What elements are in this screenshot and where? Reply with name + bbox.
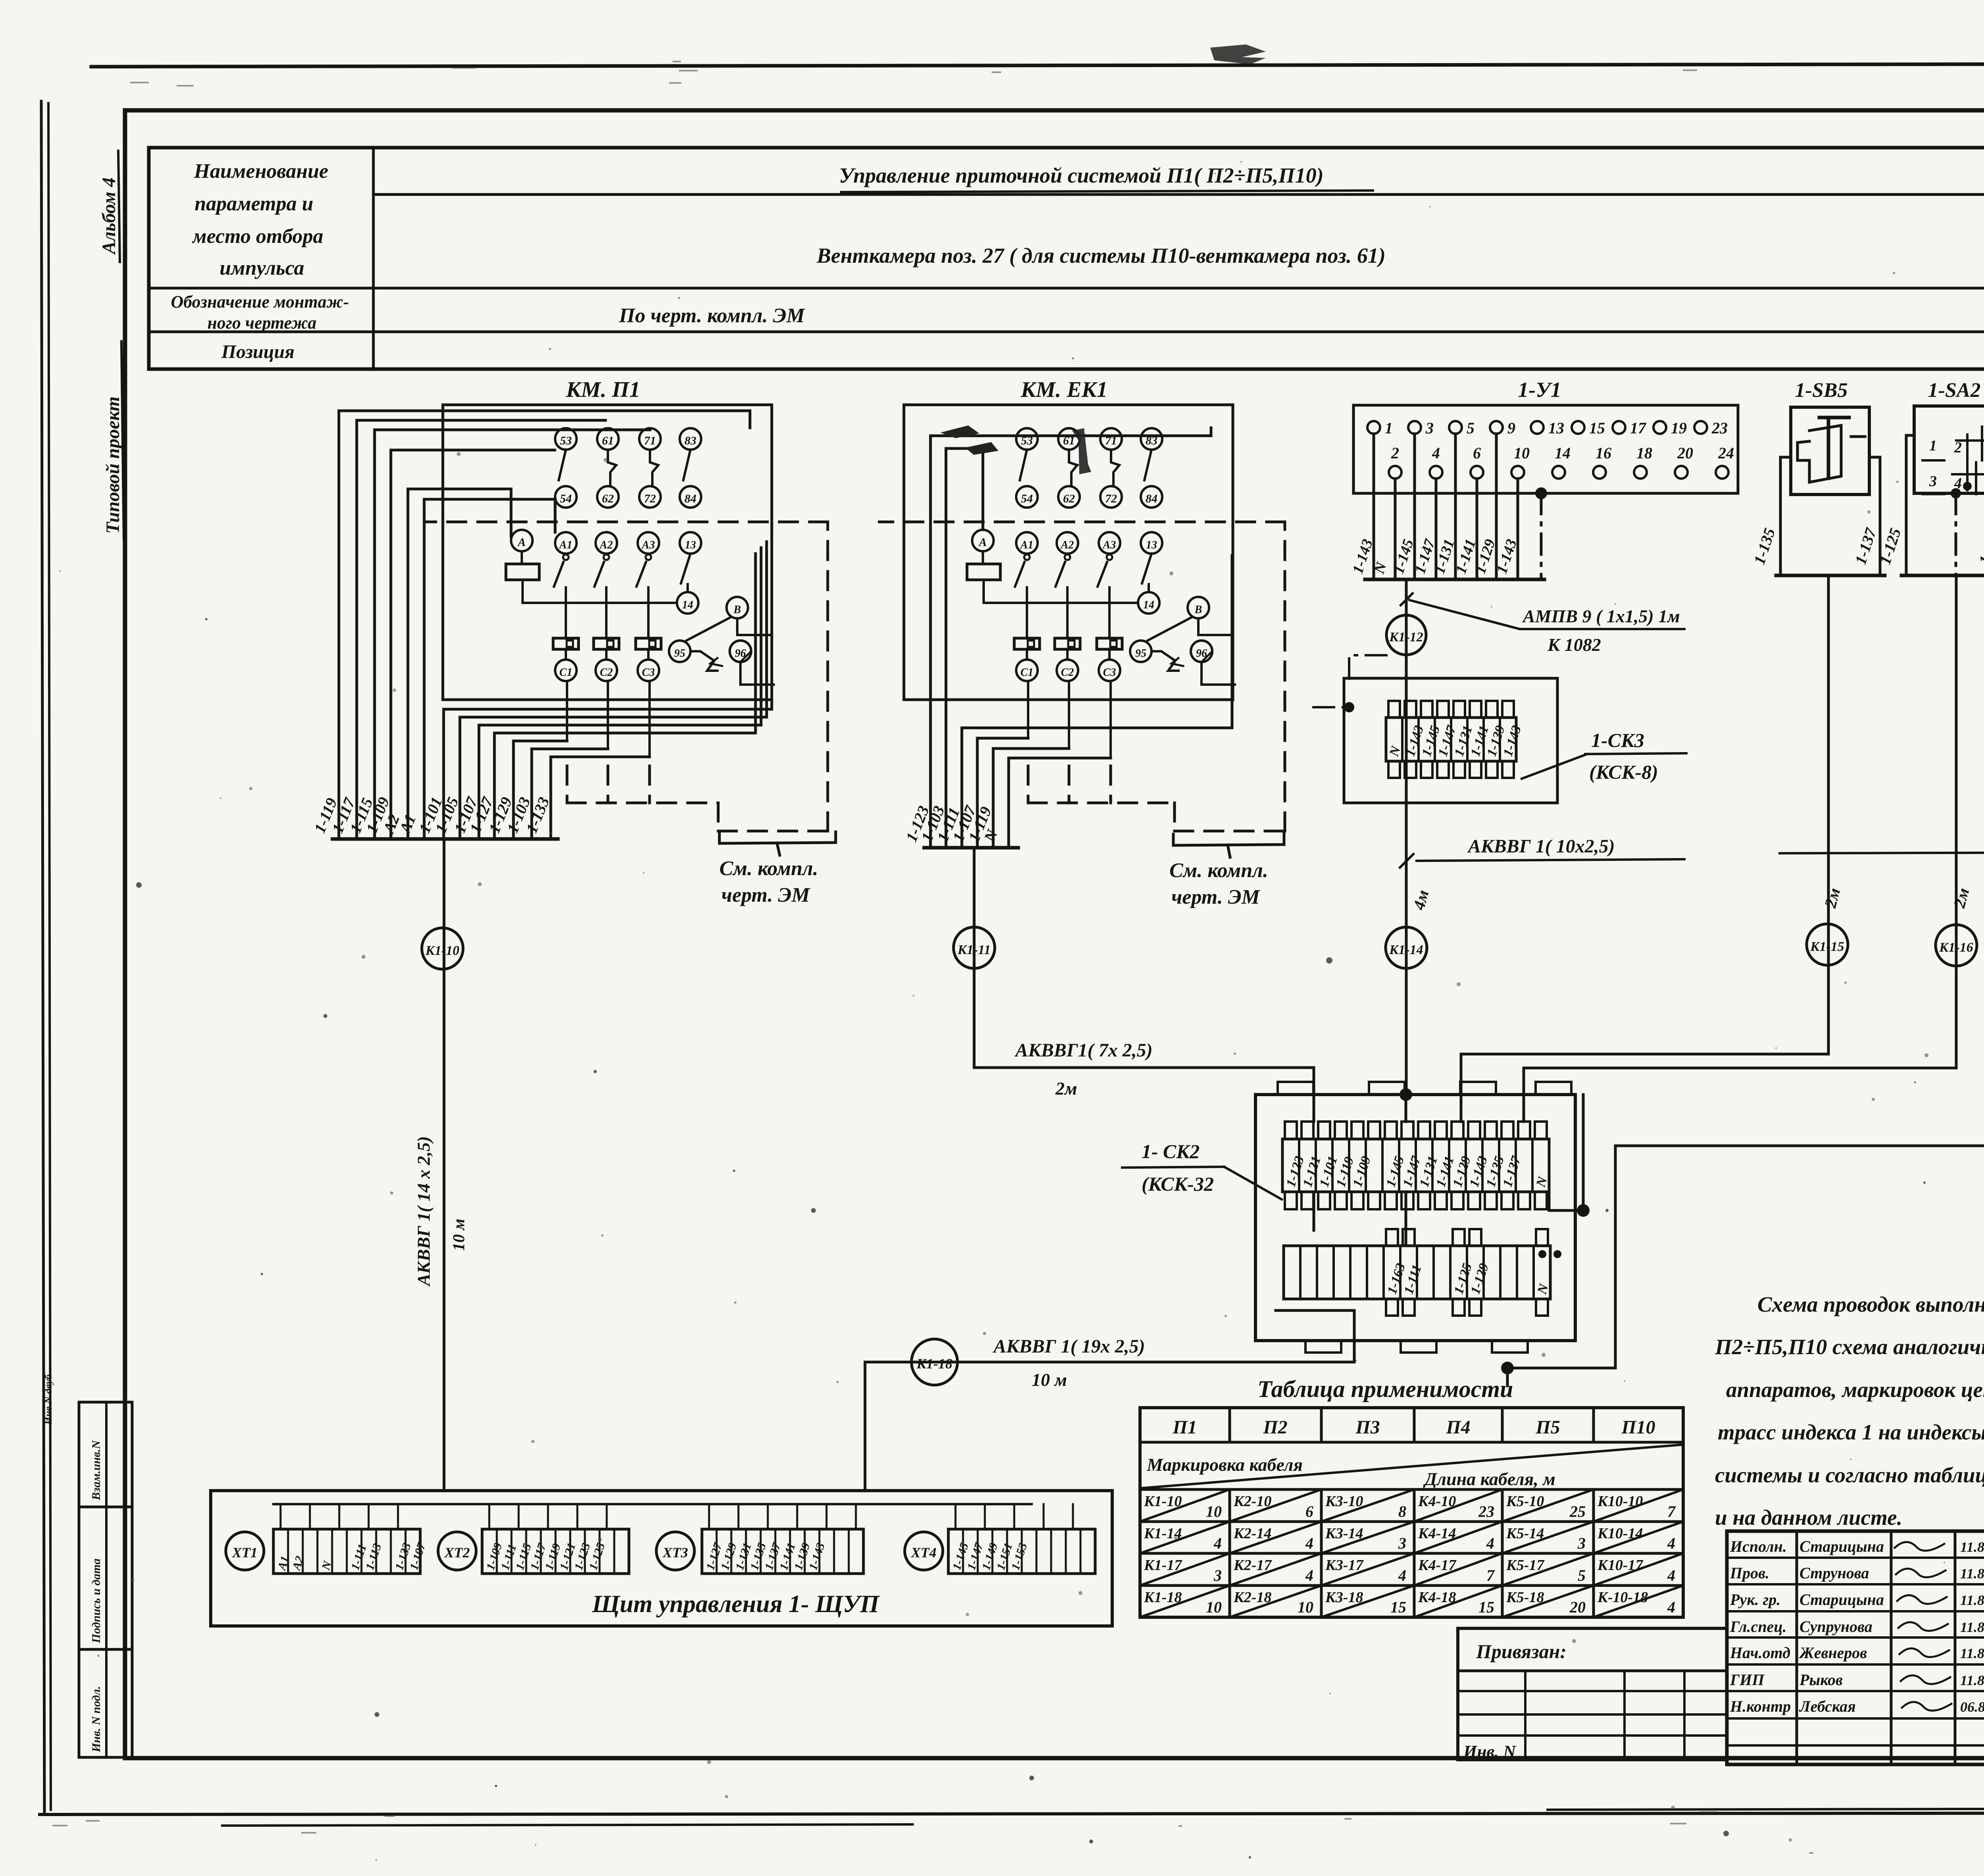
bundle wire top 5 КМ. П1 bbox=[423, 499, 426, 839]
data rows bbox=[1140, 1520, 1683, 1523]
dashed lines from C1 C2 C3 KM.P1 bbox=[566, 766, 569, 803]
redraw terminal 96 KM.P1 bbox=[730, 641, 751, 662]
cable AKVVG1 4x2.5 bbox=[1780, 852, 1984, 853]
svg-text:62: 62 bbox=[602, 492, 614, 505]
svg-text:1-СК3: 1-СК3 bbox=[1591, 729, 1644, 751]
svg-text:К5-18: К5-18 bbox=[1506, 1589, 1544, 1606]
svg-text:11.85: 11.85 bbox=[1960, 1645, 1984, 1661]
contact terminal 71 КМ. П1 bbox=[639, 428, 661, 450]
signature rows bbox=[1727, 1557, 1984, 1559]
contact terminal 62 КМ. П1 bbox=[597, 486, 619, 508]
cell К5-17 bbox=[1502, 1553, 1594, 1585]
svg-text:С1: С1 bbox=[1021, 666, 1034, 679]
terminal А1 КМ. П1 bbox=[555, 532, 577, 554]
pin 3 1-U1 bbox=[1408, 421, 1421, 434]
terminal А2 КМ. П1 bbox=[596, 532, 617, 554]
svg-text:системы и согласно таблиц: системы и согласно таблиц применимости (… bbox=[1715, 1463, 1984, 1487]
header row line 3 bbox=[149, 331, 1984, 333]
svg-text:Взам.инв.N: Взам.инв.N bbox=[90, 1440, 103, 1501]
bundle wire top 0 КМ. П1 bbox=[338, 411, 340, 839]
svg-text:КМ. П1: КМ. П1 bbox=[565, 377, 640, 402]
svg-text:5: 5 bbox=[1578, 1566, 1586, 1584]
svg-text:Схема проводок выполнена д: Схема проводок выполнена для системы П1.… bbox=[1757, 1292, 1984, 1316]
terminal B КМ. П1 bbox=[727, 597, 748, 618]
svg-text:10: 10 bbox=[1298, 1598, 1313, 1616]
svg-text:К1-11: К1-11 bbox=[957, 943, 991, 957]
cell К3-10 bbox=[1321, 1489, 1414, 1522]
cell К10-14 bbox=[1594, 1522, 1683, 1553]
terminal А2 КМ. ЕК1 bbox=[1057, 532, 1078, 554]
1-CK3 label bbox=[1522, 754, 1587, 779]
svg-text:20: 20 bbox=[1677, 444, 1693, 462]
scan artifacts top bbox=[1210, 44, 1266, 64]
svg-text:П1: П1 bbox=[1172, 1417, 1197, 1438]
svg-text:С3: С3 bbox=[1103, 666, 1116, 679]
sheet outer edge top line bbox=[91, 63, 1984, 67]
cell К2-17 bbox=[1230, 1553, 1321, 1585]
svg-text:ХТ2: ХТ2 bbox=[444, 1545, 470, 1560]
svg-text:4: 4 bbox=[1667, 1534, 1675, 1552]
svg-text:4: 4 bbox=[1305, 1566, 1313, 1584]
terminal А3 КМ. ЕК1 bbox=[1099, 532, 1120, 554]
svg-text:11.85: 11.85 bbox=[1960, 1619, 1984, 1635]
svg-text:72: 72 bbox=[644, 492, 656, 505]
contact terminal 53 КМ. ЕК1 bbox=[1016, 428, 1038, 450]
svg-text:3: 3 bbox=[1398, 1534, 1406, 1552]
1-CK3 dash-dot top left bbox=[1349, 655, 1386, 679]
svg-text:К4-18: К4-18 bbox=[1418, 1589, 1456, 1606]
terminal 95 КМ. ЕК1 bbox=[1130, 641, 1152, 662]
svg-text:14: 14 bbox=[1555, 444, 1571, 462]
svg-text:По черт. компл. ЭМ: По черт. компл. ЭМ bbox=[619, 304, 806, 327]
svg-text:(КСК-32: (КСК-32 bbox=[1142, 1173, 1214, 1195]
svg-text:95: 95 bbox=[674, 647, 685, 660]
1-CK2 bottom tabs bbox=[1305, 1341, 1341, 1353]
coil КМ. П1 bbox=[521, 551, 523, 564]
pin 16 1-U1 bbox=[1593, 466, 1606, 479]
svg-text:АМПВ 9 ( 1х1,5) 1м: АМПВ 9 ( 1х1,5) 1м bbox=[1522, 606, 1680, 626]
svg-text:1- СК2: 1- СК2 bbox=[1142, 1140, 1200, 1162]
terminals C1 C2 C3 КМ. ЕК1 bbox=[1016, 660, 1038, 681]
riser wire from KM.P1 to panel bbox=[443, 839, 446, 1491]
svg-text:7: 7 bbox=[1667, 1503, 1676, 1520]
junction circle K1-12 bbox=[1405, 579, 1408, 1095]
pin 4 1-U1 bbox=[1430, 466, 1442, 479]
riser wire from KM.EK1 bbox=[973, 848, 976, 1068]
header table column divider bbox=[372, 148, 375, 369]
svg-text:К5-10: К5-10 bbox=[1506, 1493, 1544, 1510]
svg-text:К2-18: К2-18 bbox=[1233, 1589, 1271, 1606]
1-U1 junction dot bbox=[1535, 487, 1547, 499]
bracket KM.P1 bbox=[719, 832, 836, 843]
cell К5-18 bbox=[1502, 1585, 1594, 1617]
pole contact at 1528 КМ. ЕК1 bbox=[1065, 554, 1070, 560]
svg-text:3: 3 bbox=[1213, 1566, 1222, 1584]
pin 20 1-U1 bbox=[1675, 466, 1688, 479]
panel terminal group ХТ2 bbox=[482, 1529, 629, 1574]
route K1-11 to CK2 bbox=[974, 1068, 1314, 1095]
contact terminal 54 КМ. ЕК1 bbox=[1016, 486, 1038, 508]
svg-text:Супрунова: Супрунова bbox=[1799, 1618, 1872, 1635]
svg-text:А3: А3 bbox=[641, 539, 655, 551]
bundle bus КМ. ЕК1 bbox=[924, 846, 1018, 850]
svg-text:Венткамера поз. 27 ( для с: Венткамера поз. 27 ( для системы П10-вен… bbox=[816, 244, 1386, 267]
terminal 95 КМ. П1 bbox=[669, 641, 690, 662]
svg-text:Лебская: Лебская bbox=[1799, 1697, 1856, 1715]
pole contact at 1528 КМ. П1 bbox=[604, 554, 609, 560]
svg-text:Управление приточной систе: Управление приточной системой П1( П2÷П5,… bbox=[839, 164, 1323, 187]
svg-text:параметра и: параметра и bbox=[194, 192, 313, 215]
svg-text:53: 53 bbox=[560, 434, 572, 447]
dashed box right side KM.P1 bbox=[827, 522, 829, 831]
cell К4-14 bbox=[1414, 1522, 1502, 1553]
svg-text:К1-18: К1-18 bbox=[1144, 1589, 1182, 1606]
contactor box КМ. П1 bbox=[443, 405, 772, 700]
panel internal bus bbox=[273, 1503, 1032, 1505]
svg-text:В: В bbox=[733, 604, 741, 616]
contact terminal 53 КМ. П1 bbox=[555, 428, 577, 450]
svg-text:К5-14: К5-14 bbox=[1506, 1525, 1544, 1542]
svg-text:черт. ЭМ: черт. ЭМ bbox=[1171, 886, 1261, 908]
cell К2-18 bbox=[1230, 1585, 1321, 1617]
svg-text:Рыков: Рыков bbox=[1799, 1671, 1843, 1689]
cell К3-14 bbox=[1321, 1522, 1414, 1553]
svg-text:К3-10: К3-10 bbox=[1325, 1493, 1363, 1510]
svg-text:1: 1 bbox=[1929, 437, 1937, 454]
svg-text:9: 9 bbox=[1507, 419, 1515, 437]
pin 10 1-U1 bbox=[1511, 466, 1524, 479]
cell К1-18 bbox=[1140, 1585, 1230, 1617]
1-CK3 outer box bbox=[1344, 678, 1557, 803]
bundle wire bot 6 КМ. П1 bbox=[550, 757, 552, 839]
svg-text:ХТ3: ХТ3 bbox=[662, 1545, 688, 1560]
contact terminal 72 КМ. ЕК1 bbox=[1100, 486, 1122, 508]
svg-text:КМ. ЕК1: КМ. ЕК1 bbox=[1020, 377, 1107, 402]
svg-text:10: 10 bbox=[1206, 1503, 1222, 1520]
contact terminal 84 КМ. ЕК1 bbox=[1141, 486, 1162, 508]
svg-text:Наименование: Наименование bbox=[194, 160, 329, 183]
svg-text:Гл.спец.: Гл.спец. bbox=[1730, 1618, 1787, 1635]
terminal А1 КМ. ЕК1 bbox=[1016, 532, 1038, 554]
svg-text:(КСК-8): (КСК-8) bbox=[1589, 761, 1658, 783]
bundle wire top 3 КМ. П1 bbox=[390, 450, 392, 839]
bundle wire bot 2 КМ. П1 bbox=[478, 725, 481, 839]
sheet outer edge left double line bbox=[41, 101, 44, 1813]
privyazan block bbox=[1458, 1628, 1727, 1760]
svg-text:А3: А3 bbox=[1102, 539, 1116, 551]
pin 9 1-U1 bbox=[1490, 421, 1503, 434]
terminal 13 КМ. ЕК1 bbox=[1141, 532, 1162, 554]
1-U1 dash-dot drop bbox=[1540, 493, 1543, 579]
svg-text:А2: А2 bbox=[599, 539, 613, 551]
1-CK2 bottom bus to K1-18 bbox=[1353, 1310, 1356, 1362]
1-CK2 top junction dot bbox=[1400, 1088, 1412, 1101]
svg-text:К1-12: К1-12 bbox=[1389, 630, 1423, 645]
svg-text:П2: П2 bbox=[1263, 1417, 1287, 1438]
pin 5 1-U1 bbox=[1449, 421, 1462, 434]
svg-text:1-У1: 1-У1 bbox=[1518, 378, 1561, 402]
contact terminal 62 КМ. ЕК1 bbox=[1058, 486, 1080, 508]
svg-text:15: 15 bbox=[1390, 1598, 1406, 1616]
terminal box 1-U1 bbox=[1353, 405, 1738, 493]
pin 6 1-U1 bbox=[1471, 466, 1483, 479]
contact terminal 83 КМ. П1 bbox=[680, 428, 701, 450]
coil terminal A КМ. П1 bbox=[511, 530, 533, 551]
bundle wire top 2 КМ. П1 bbox=[373, 430, 376, 839]
redraw terminal 96 KM.EK1 bbox=[1191, 641, 1212, 662]
svg-text:К10-10: К10-10 bbox=[1597, 1493, 1643, 1510]
cell К4-10 bbox=[1414, 1489, 1502, 1522]
bundle wire bot 2 КМ. ЕК1 bbox=[992, 748, 995, 848]
terminal 96 КМ. П1 bbox=[730, 641, 751, 662]
svg-text:2м: 2м bbox=[1055, 1078, 1077, 1099]
panel circle ХТ3 bbox=[656, 1532, 694, 1570]
junction circle K1-14 bbox=[1386, 927, 1427, 968]
svg-text:23: 23 bbox=[1478, 1503, 1494, 1520]
header row P1..P10 bbox=[1140, 1441, 1683, 1444]
title block outer bbox=[1727, 1531, 1984, 1764]
svg-text:См. компл.: См. компл. bbox=[719, 857, 818, 880]
svg-text:10 м: 10 м bbox=[1032, 1370, 1067, 1390]
wire B down КМ. ЕК1 bbox=[1198, 618, 1232, 635]
cable AKVVG1 19x2.5 from K1-18 bbox=[865, 1361, 1354, 1364]
bundle wire top 0 КМ. ЕК1 bbox=[929, 436, 932, 848]
svg-text:ХТ1: ХТ1 bbox=[232, 1545, 258, 1560]
svg-text:К1-18: К1-18 bbox=[916, 1356, 952, 1372]
terminal 14 КМ. П1 bbox=[677, 592, 698, 614]
svg-text:4: 4 bbox=[1486, 1534, 1494, 1552]
bracket KM.EK1 bbox=[1173, 833, 1284, 845]
svg-text:С1: С1 bbox=[559, 666, 573, 679]
svg-text:С3: С3 bbox=[642, 666, 655, 679]
svg-text:62: 62 bbox=[1063, 492, 1075, 505]
svg-text:Обозначение монтаж-: Обозначение монтаж- bbox=[171, 292, 349, 312]
svg-text:К2-17: К2-17 bbox=[1233, 1557, 1272, 1574]
cable AKVVG1 10x2.5 bbox=[1400, 854, 1413, 868]
cell К1-14 bbox=[1140, 1522, 1230, 1553]
svg-text:95: 95 bbox=[1135, 647, 1146, 660]
svg-text:4: 4 bbox=[1667, 1566, 1675, 1584]
contactor box КМ. ЕК1 bbox=[904, 405, 1233, 700]
svg-text:71: 71 bbox=[644, 434, 656, 447]
switch 1-SA2 outer box bbox=[1906, 435, 1984, 575]
svg-text:1-SB5: 1-SB5 bbox=[1795, 379, 1848, 402]
svg-text:84: 84 bbox=[1146, 492, 1157, 505]
svg-text:Старицына: Старицына bbox=[1799, 1591, 1884, 1609]
terminal strip at 3232,2870 bbox=[1282, 1139, 1549, 1192]
route K1-15 to CK2 bbox=[1827, 575, 1830, 1054]
svg-text:А: А bbox=[978, 536, 987, 549]
C1-C3 solid stubs KM.P1 bbox=[566, 681, 568, 741]
svg-text:8: 8 bbox=[1398, 1503, 1406, 1520]
cell К10-10 bbox=[1594, 1489, 1683, 1522]
svg-text:1: 1 bbox=[1385, 419, 1393, 437]
svg-text:К1-15: К1-15 bbox=[1810, 939, 1844, 954]
bundle wire top 1 КМ. ЕК1 bbox=[945, 448, 948, 848]
svg-text:10: 10 bbox=[1514, 444, 1530, 462]
contact terminal 72 КМ. П1 bbox=[639, 486, 661, 508]
svg-text:П2÷П5,П10 схема аналогична с: П2÷П5,П10 схема аналогична с за меной в … bbox=[1715, 1335, 1984, 1359]
bundle wire top 4 КМ. П1 bbox=[407, 489, 409, 839]
svg-text:Щит управления 1- ЩУП: Щит управления 1- ЩУП bbox=[592, 1591, 880, 1618]
svg-text:6: 6 bbox=[1473, 444, 1481, 462]
control panel box bbox=[211, 1491, 1112, 1626]
1-U1 bus bbox=[1365, 578, 1544, 581]
switch 1-SA2 inner box bbox=[1914, 406, 1984, 493]
svg-text:3: 3 bbox=[1425, 419, 1434, 437]
svg-text:11.85: 11.85 bbox=[1960, 1592, 1984, 1608]
svg-text:К4-14: К4-14 bbox=[1418, 1525, 1456, 1542]
pin 1 1-U1 bbox=[1367, 421, 1380, 434]
terminal 14 КМ. ЕК1 bbox=[1138, 592, 1159, 614]
svg-text:61: 61 bbox=[602, 434, 614, 447]
terminal А3 КМ. П1 bbox=[638, 532, 659, 554]
header table outer box bbox=[149, 148, 1984, 369]
aux contacts КМ. П1 bbox=[559, 450, 566, 480]
svg-text:96: 96 bbox=[1196, 647, 1207, 660]
bundle wire top 1 КМ. П1 bbox=[356, 420, 358, 839]
svg-text:Инв. N: Инв. N bbox=[1463, 1742, 1517, 1761]
svg-text:Маркировка кабеля: Маркировка кабеля bbox=[1146, 1455, 1303, 1475]
svg-text:4: 4 bbox=[1398, 1566, 1406, 1584]
svg-text:Рук. гр.: Рук. гр. bbox=[1730, 1591, 1780, 1609]
svg-text:54: 54 bbox=[1021, 492, 1033, 505]
svg-text:16: 16 bbox=[1596, 444, 1611, 462]
junction circle K1-10 bbox=[422, 928, 463, 969]
contact terminal 84 КМ. П1 bbox=[680, 486, 701, 508]
pin 13 1-U1 bbox=[1531, 421, 1544, 434]
svg-text:Позиция: Позиция bbox=[221, 341, 294, 362]
svg-text:К4-17: К4-17 bbox=[1418, 1557, 1457, 1574]
svg-text:17: 17 bbox=[1630, 419, 1647, 437]
heaters КМ. ЕК1 bbox=[1014, 638, 1040, 649]
coil КМ. ЕК1 bbox=[982, 551, 984, 564]
thermal contact КМ. П1 bbox=[690, 651, 717, 671]
heaters КМ. П1 bbox=[553, 638, 579, 649]
svg-text:АКВВГ1( 7х 2,5): АКВВГ1( 7х 2,5) bbox=[1014, 1040, 1153, 1061]
svg-text:С2: С2 bbox=[1061, 666, 1074, 679]
svg-text:К5-17: К5-17 bbox=[1506, 1557, 1545, 1574]
svg-text:1-SA2: 1-SA2 bbox=[1928, 379, 1981, 402]
svg-text:3: 3 bbox=[1929, 473, 1937, 490]
svg-text:Инв. N подл.: Инв. N подл. bbox=[90, 1686, 103, 1753]
svg-text:К1-16: К1-16 bbox=[1939, 940, 1973, 955]
svg-text:Исполн.: Исполн. bbox=[1730, 1537, 1787, 1555]
panel terminal group ХТ1 bbox=[273, 1529, 420, 1574]
top bundle horizontals KM.EK1 bbox=[930, 435, 1211, 437]
svg-text:14: 14 bbox=[1143, 599, 1154, 611]
svg-text:83: 83 bbox=[684, 434, 696, 447]
bundle wire bot 0 КМ. ЕК1 bbox=[961, 728, 963, 848]
aux contacts КМ. ЕК1 bbox=[1020, 450, 1027, 480]
bundle wire bot 3 КМ. ЕК1 bbox=[1007, 758, 1010, 848]
junction circle K1-11 bbox=[954, 927, 995, 968]
pin 2 1-U1 bbox=[1389, 466, 1401, 479]
svg-text:и на данном листе.: и на данном листе. bbox=[1715, 1505, 1902, 1530]
contact terminal 83 КМ. ЕК1 bbox=[1141, 428, 1162, 450]
dashed lines from C1 C2 C3 KM.EK1 bbox=[1027, 766, 1030, 803]
svg-text:Инв.N двуб: Инв.N двуб bbox=[42, 1374, 54, 1425]
svg-text:84: 84 bbox=[684, 492, 696, 505]
terminal strip at 3493,1808 bbox=[1386, 718, 1516, 761]
cell К10-17 bbox=[1594, 1553, 1683, 1585]
svg-text:15: 15 bbox=[1478, 1598, 1494, 1616]
bundle wire bot 1 КМ. ЕК1 bbox=[976, 738, 979, 848]
1-CK2 top tabs bbox=[1278, 1082, 1313, 1095]
svg-text:96: 96 bbox=[735, 647, 746, 660]
cell К-10-18 bbox=[1594, 1585, 1683, 1617]
svg-text:13: 13 bbox=[1146, 539, 1157, 551]
svg-text:13: 13 bbox=[1548, 419, 1564, 437]
header row line 2 bbox=[149, 287, 1984, 290]
svg-text:Пров.: Пров. bbox=[1730, 1564, 1769, 1582]
pole contact at 1634 КМ. ЕК1 bbox=[1107, 554, 1112, 560]
svg-text:ГИП: ГИП bbox=[1730, 1671, 1765, 1689]
route K1-16 to CK2 bbox=[1955, 575, 1958, 1068]
panel circle ХТ1 bbox=[226, 1532, 264, 1570]
contact 13-14 КМ. П1 bbox=[681, 554, 690, 583]
bundle wire bot 4 КМ. П1 bbox=[512, 741, 515, 839]
1-SB5 bottom bus bbox=[1776, 574, 1885, 577]
svg-text:10 м: 10 м bbox=[450, 1219, 468, 1251]
svg-text:Старицына: Старицына bbox=[1799, 1537, 1884, 1555]
svg-text:Типовой проект: Типовой проект bbox=[102, 396, 123, 534]
wire 14 to coil КМ. ЕК1 bbox=[984, 602, 1138, 604]
svg-text:6: 6 bbox=[1305, 1503, 1313, 1520]
svg-text:АКВВГ 1( 14 х 2,5): АКВВГ 1( 14 х 2,5) bbox=[413, 1136, 434, 1287]
svg-text:Н.контр: Н.контр bbox=[1730, 1697, 1791, 1715]
wire B down КМ. П1 bbox=[737, 618, 771, 635]
svg-text:Подпись и дата: Подпись и дата bbox=[90, 1559, 103, 1643]
svg-text:7: 7 bbox=[1486, 1566, 1495, 1584]
svg-text:4: 4 bbox=[1213, 1534, 1222, 1552]
svg-text:К1-10: К1-10 bbox=[425, 943, 459, 958]
svg-text:Таблица применимости: Таблица применимости bbox=[1257, 1376, 1513, 1402]
svg-text:06.86: 06.86 bbox=[1960, 1699, 1984, 1715]
svg-text:11.85: 11.85 bbox=[1960, 1672, 1984, 1688]
svg-text:АКВВГ 1( 10х2,5): АКВВГ 1( 10х2,5) bbox=[1467, 836, 1615, 857]
terminals C1 C2 C3 КМ. П1 bbox=[555, 660, 577, 681]
svg-text:13: 13 bbox=[685, 539, 696, 551]
pin 23 1-U1 bbox=[1694, 421, 1707, 434]
svg-text:24: 24 bbox=[1718, 444, 1734, 462]
svg-text:А1: А1 bbox=[559, 539, 573, 551]
header row line under system title bbox=[373, 193, 1984, 196]
svg-text:К 1082: К 1082 bbox=[1547, 635, 1601, 655]
svg-text:К2-10: К2-10 bbox=[1233, 1493, 1271, 1510]
svg-text:2: 2 bbox=[1391, 444, 1399, 462]
svg-text:19: 19 bbox=[1671, 419, 1687, 437]
dashed box right side KM.EK1 bbox=[1284, 522, 1286, 831]
svg-text:А2: А2 bbox=[1060, 539, 1074, 551]
1-CK2 lower N pins bbox=[1538, 1250, 1546, 1258]
pin 15 1-U1 bbox=[1572, 421, 1584, 434]
1-CK2 internal feeds bbox=[1313, 1095, 1315, 1122]
wires from 1-U1 pins bbox=[1373, 434, 1375, 579]
svg-text:Привязан:: Привязан: bbox=[1476, 1640, 1567, 1662]
svg-text:аппаратов, маркировок цепей: аппаратов, маркировок цепей управления и… bbox=[1726, 1378, 1984, 1402]
svg-text:11.85: 11.85 bbox=[1960, 1566, 1984, 1582]
cable callout AMPV9 bbox=[1405, 579, 1408, 615]
svg-text:К4-10: К4-10 bbox=[1418, 1493, 1456, 1510]
svg-text:15: 15 bbox=[1589, 419, 1605, 437]
button 1-SB5 inner box bbox=[1791, 407, 1869, 494]
pole contact at 1426 КМ. ЕК1 bbox=[1024, 554, 1030, 560]
svg-text:П3: П3 bbox=[1355, 1417, 1380, 1438]
svg-text:См. компл.: См. компл. bbox=[1169, 859, 1268, 882]
cell К1-10 bbox=[1140, 1489, 1230, 1522]
svg-text:П10: П10 bbox=[1621, 1417, 1655, 1438]
